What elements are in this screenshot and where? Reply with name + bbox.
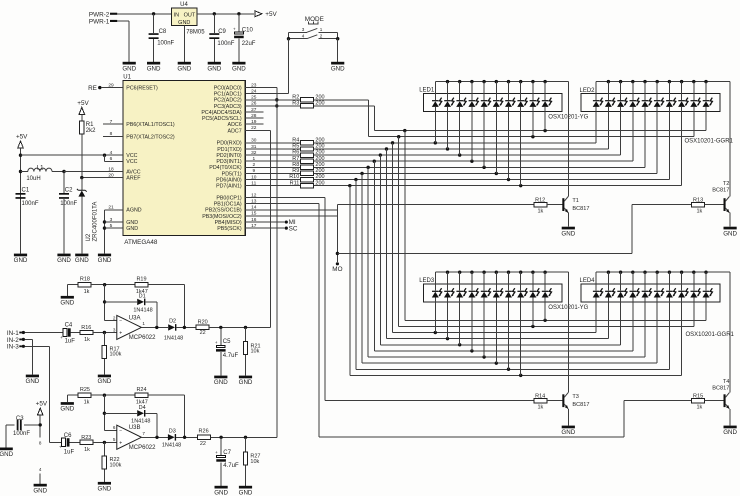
connector MO	[332, 262, 342, 273]
connector PWR-2	[89, 11, 117, 18]
svg-text:R9: R9	[292, 168, 299, 174]
resistor R21	[243, 327, 260, 375]
zener diode U2 ZRC400F01TA	[77, 178, 99, 254]
svg-text:R20: R20	[198, 319, 208, 325]
svg-text:10k: 10k	[251, 349, 260, 355]
svg-text:PB3(MOSI/OC2): PB3(MOSI/OC2)	[202, 214, 242, 220]
svg-text:BC817: BC817	[572, 206, 589, 212]
svg-text:1N4148: 1N4148	[133, 307, 152, 313]
wire AGND	[105, 210, 123, 254]
junction row9 bundle	[348, 184, 351, 187]
LED array LED2 box	[580, 88, 720, 111]
svg-text:PD7(AIN1): PD7(AIN1)	[216, 184, 242, 190]
svg-text:BC817: BC817	[712, 386, 729, 392]
switch MODE pole 2	[289, 34, 338, 39]
junction bottom row3 LED3 pin	[446, 337, 449, 340]
junction LED4 bus pin2	[607, 271, 610, 274]
wire row net R5	[314, 148, 609, 150]
svg-text:R18: R18	[80, 276, 90, 282]
svg-text:PB7(XTAL2/TOSC2): PB7(XTAL2/TOSC2)	[126, 134, 175, 140]
svg-text:100k: 100k	[110, 352, 122, 358]
LED D1-3 in LED1	[456, 82, 466, 155]
wire AREF	[82, 177, 123, 179]
wire U4 GND stem	[183, 26, 185, 62]
LED D1-6 in LED1	[493, 82, 503, 174]
svg-text:PD4(T0/XCK): PD4(T0/XCK)	[209, 165, 242, 171]
LED D3-3 in LED3	[456, 272, 466, 345]
svg-text:MO: MO	[332, 266, 342, 273]
svg-text:GND: GND	[239, 489, 253, 496]
wire U1 pin28 stub	[245, 117, 263, 119]
svg-text:D2: D2	[169, 318, 176, 324]
svg-text:GND: GND	[207, 65, 221, 72]
svg-text:GND: GND	[60, 300, 74, 307]
resistor R18	[67, 276, 135, 296]
svg-text:GND: GND	[60, 406, 74, 413]
junction C9 tap	[213, 12, 216, 15]
wire MO rail	[336, 205, 338, 263]
svg-text:PWR-2: PWR-2	[89, 11, 110, 18]
capacitor C3	[6, 416, 40, 448]
ground T1	[561, 227, 575, 238]
svg-text:T3: T3	[572, 394, 579, 400]
svg-text:22: 22	[200, 330, 206, 336]
junction PC0-R3row	[275, 104, 278, 107]
resistor R5	[245, 144, 324, 152]
svg-text:GND: GND	[14, 257, 28, 264]
LED D3-4 in LED3	[468, 272, 478, 351]
svg-text:22uF: 22uF	[242, 41, 256, 47]
wire PWR-1 down	[117, 21, 129, 62]
junction LED3 bus pin2	[446, 271, 449, 274]
svg-text:7: 7	[142, 431, 145, 436]
svg-text:BC817: BC817	[712, 188, 729, 194]
wire U4 OUT to +5V	[197, 13, 254, 15]
junction LED3 bus pin8	[519, 271, 522, 274]
svg-text:200: 200	[315, 94, 324, 100]
svg-text:R13: R13	[693, 197, 703, 203]
junction U3A out D1	[155, 326, 158, 329]
LED D2-1 in LED2	[593, 82, 603, 143]
junction row5 bundle	[373, 160, 376, 163]
svg-text:GND: GND	[561, 230, 575, 237]
LED D2-9 in LED2	[690, 82, 700, 137]
LED D2-5 in LED2	[642, 82, 652, 168]
wire bottom row net row8	[356, 368, 669, 370]
resistor R26	[197, 429, 276, 448]
wire MODE right rail	[337, 32, 339, 38]
connector MI	[285, 219, 296, 226]
junction LED4 bus pin6	[656, 271, 659, 274]
junction MO row	[336, 252, 339, 255]
transistor T3 BC817	[562, 393, 589, 426]
wire MODE to PC1	[245, 39, 288, 94]
svg-text:100nF: 100nF	[13, 431, 30, 437]
svg-text:2: 2	[113, 315, 116, 320]
ground R18	[60, 296, 74, 307]
resistor R3	[245, 101, 374, 109]
wire PC0 net	[245, 88, 277, 438]
junction R25 R24 node	[103, 394, 106, 397]
junction row1 LED1 pin	[531, 135, 534, 138]
junction row3 LED1 pin	[446, 147, 449, 150]
ground R17	[98, 375, 112, 386]
junction LED4 bus pin4	[631, 271, 634, 274]
wire RE to pin29	[101, 87, 123, 89]
svg-text:+: +	[119, 441, 122, 447]
junction LED2 bus pin5	[643, 80, 646, 83]
LED D4-1 in LED4	[593, 272, 603, 332]
wire bundle net row7 to bottom	[361, 173, 363, 363]
svg-text:GND: GND	[126, 220, 138, 226]
svg-text:LED3: LED3	[419, 278, 435, 284]
svg-text:R11: R11	[290, 180, 300, 186]
LED D2-2 in LED2	[605, 82, 615, 149]
svg-text:4: 4	[302, 34, 305, 39]
junction row4 bundle	[379, 153, 382, 156]
svg-text:IN-3: IN-3	[7, 344, 19, 351]
svg-text:2: 2	[320, 34, 323, 39]
svg-text:R5: R5	[292, 144, 299, 150]
svg-text:C9: C9	[218, 29, 226, 35]
junction bottom row1 LED3 pin	[531, 325, 534, 328]
LED D3-2 in LED3	[444, 272, 454, 338]
wire IN-1 to C4	[25, 332, 63, 334]
connector PWR-1	[89, 19, 117, 26]
ground R25	[60, 402, 74, 413]
junction C7 tap	[219, 436, 222, 439]
wire PB3 to MO rail	[245, 215, 337, 217]
ground R21	[239, 376, 253, 387]
LED D4-9 in LED4	[690, 272, 700, 326]
svg-text:ADC6: ADC6	[228, 122, 242, 128]
LED D4-4 in LED4	[629, 272, 639, 351]
resistor R20	[196, 319, 245, 336]
svg-text:2k2: 2k2	[86, 128, 96, 134]
wire row net R10	[314, 179, 670, 181]
junction LED1 bus pin5	[482, 80, 485, 83]
resistor R17	[102, 333, 121, 375]
svg-text:R7: R7	[292, 156, 299, 162]
power +5V output arrow	[255, 11, 277, 18]
ground C2	[57, 254, 71, 265]
junction LED4 bus pin3	[619, 271, 622, 274]
op-amp U3A MCP6022	[113, 315, 156, 341]
svg-text:5: 5	[113, 437, 116, 442]
svg-text:GND: GND	[33, 487, 47, 494]
junction row0 bundle	[403, 129, 406, 132]
svg-text:PC4(ADC4/SDA): PC4(ADC4/SDA)	[201, 110, 242, 116]
wire bottom row net row5	[374, 350, 633, 352]
svg-text:GND: GND	[0, 451, 14, 458]
ground R22	[98, 482, 112, 493]
wire bottom row net row2	[393, 332, 597, 334]
wire row net R2	[369, 136, 694, 138]
svg-text:22: 22	[200, 441, 206, 447]
junction row8 bundle	[354, 178, 357, 181]
svg-text:PD1(TXD): PD1(TXD)	[217, 147, 242, 153]
svg-text:GND: GND	[723, 429, 737, 436]
svg-text:PC2(ADC2): PC2(ADC2)	[214, 98, 242, 104]
power +5V rail arrow	[16, 133, 28, 148]
junction LED3 bus pin7	[507, 271, 510, 274]
junction LED4 bus pin8	[680, 271, 683, 274]
svg-text:4: 4	[39, 467, 42, 472]
diode D4 1N4148	[104, 405, 157, 438]
svg-text:1k: 1k	[84, 447, 90, 453]
svg-text:GND: GND	[239, 379, 253, 386]
svg-text:1: 1	[320, 27, 323, 32]
wire bundle net row0 to bottom	[404, 131, 406, 321]
svg-text:GND: GND	[214, 379, 228, 386]
resistor R24	[135, 387, 184, 437]
junction bottom row0 LED3 pin	[543, 319, 546, 322]
junction row2 LED1 pin	[434, 141, 437, 144]
wire LED4 common bus	[596, 272, 730, 392]
ground C7	[214, 486, 228, 497]
wire bottom row net row6	[368, 356, 645, 358]
svg-text:4.7uF: 4.7uF	[223, 353, 239, 359]
resistor R9	[245, 168, 324, 176]
junction R18 R19 node	[103, 283, 106, 286]
junction bottom row5 LED3 pin	[470, 349, 473, 352]
svg-text:8: 8	[39, 441, 42, 446]
junction VCC pin6 tap	[103, 154, 106, 157]
wire U3B inverting node down	[104, 395, 116, 430]
LED D1-5 in LED1	[481, 82, 491, 168]
svg-text:PD3(INT1): PD3(INT1)	[216, 159, 242, 165]
svg-text:R25: R25	[80, 387, 90, 393]
resistor R12	[534, 197, 562, 214]
wire U3A output	[141, 326, 168, 328]
wire bundle net row3 to bottom	[385, 149, 387, 339]
junction LED3 bus pin5	[482, 271, 485, 274]
svg-text:C1: C1	[22, 188, 30, 194]
wire +5V rail down	[20, 148, 22, 254]
junction U3B out D4	[155, 436, 158, 439]
label LED2 part OSX10201-GGR1	[685, 138, 734, 144]
svg-text:1N4148: 1N4148	[162, 442, 181, 448]
wire PB0 to T3 base	[245, 198, 533, 401]
junction LED2 bus pin3	[619, 80, 622, 83]
junction LED4 bus pin9	[692, 271, 695, 274]
svg-text:10uH: 10uH	[26, 176, 40, 182]
ground C10	[232, 62, 246, 73]
wire bundle net row1 to bottom	[398, 137, 400, 327]
svg-text:D3: D3	[169, 428, 176, 434]
wire inverting node down	[105, 285, 117, 321]
svg-text:D4: D4	[139, 405, 146, 411]
svg-text:1uF: 1uF	[65, 339, 76, 345]
svg-text:C6: C6	[64, 433, 72, 439]
junction LED3 bus pin6	[495, 271, 498, 274]
svg-text:R4: R4	[292, 137, 299, 143]
wire bottom row net row7	[362, 362, 657, 364]
junction MODE right	[336, 37, 339, 40]
svg-text:T1: T1	[572, 198, 579, 204]
svg-text:R3: R3	[292, 101, 299, 107]
svg-text:GND: GND	[122, 65, 136, 72]
wire LED2 common bus	[596, 82, 730, 197]
svg-text:+: +	[215, 450, 218, 455]
resistor R10	[245, 174, 324, 182]
svg-text:+5V: +5V	[77, 100, 89, 107]
power +5V opamp rail	[36, 401, 48, 416]
ground C5	[214, 376, 228, 387]
ground C9	[207, 62, 221, 73]
svg-text:R23: R23	[81, 435, 91, 441]
svg-text:GND: GND	[214, 489, 228, 496]
svg-text:GND: GND	[98, 486, 112, 493]
ground opamp pin4	[33, 484, 47, 495]
svg-text:AVCC: AVCC	[126, 169, 140, 175]
wire bundle net row2 to bottom	[392, 143, 394, 333]
junction row7 LED1 pin	[495, 172, 498, 175]
junction row8 LED1 pin	[507, 178, 510, 181]
wire GND pin3	[105, 221, 123, 223]
wire bottom row net row4	[380, 344, 620, 346]
capacitor C6	[59, 433, 80, 455]
junction VCC tap	[19, 154, 22, 157]
wire VCC to pin4	[21, 154, 123, 156]
junction LED2 bus pin9	[692, 80, 695, 83]
LED D1-8 in LED1	[517, 82, 527, 186]
svg-text:PB6(XTAL1/TOSC1): PB6(XTAL1/TOSC1)	[126, 122, 175, 128]
svg-text:1k: 1k	[84, 399, 90, 405]
resistor R25	[67, 387, 135, 406]
svg-text:GND: GND	[723, 230, 737, 237]
svg-text:R10: R10	[289, 174, 299, 180]
U1 right pin numbers	[251, 82, 257, 229]
svg-text:−: −	[119, 319, 122, 325]
junction LED4 bus pin10	[704, 271, 707, 274]
LED D2-10 in LED2	[703, 82, 713, 131]
wire U1 pin7 stub	[103, 123, 123, 125]
resistor R11	[245, 180, 324, 188]
junction C8 tap	[152, 12, 155, 15]
svg-text:GND: GND	[98, 378, 112, 385]
wire PB4 to MI	[245, 221, 284, 223]
svg-text:C4: C4	[65, 323, 73, 329]
junction R19 feedback	[183, 326, 186, 329]
junction GND pin5	[103, 226, 106, 229]
junction LED2 bus pin6	[656, 80, 659, 83]
junction LED1 bus pin9	[531, 80, 534, 83]
svg-text:200: 200	[315, 101, 324, 107]
wire bottom row net row1	[399, 325, 694, 327]
svg-text:T2: T2	[723, 181, 730, 187]
svg-text:PWR-1: PWR-1	[89, 19, 110, 26]
wire bundle net row8 to bottom	[355, 180, 357, 370]
junction LED2 bus pin10	[704, 80, 707, 83]
junction R23 R22 node	[103, 441, 106, 444]
svg-text:R26: R26	[199, 429, 209, 435]
power +5V R1 arrow	[77, 100, 89, 115]
junction bottom row8 LED3 pin	[507, 368, 510, 371]
LED D1-7 in LED1	[505, 82, 515, 180]
junction row9 LED1 pin	[519, 184, 522, 187]
junction AREF node	[80, 176, 83, 179]
LED array LED1 box	[419, 88, 562, 112]
svg-text:GND: GND	[75, 257, 89, 264]
junction LED4 bus pin7	[668, 271, 671, 274]
ground AGND	[98, 254, 112, 265]
svg-text:100nF: 100nF	[22, 201, 39, 207]
wire bundle net row5 to bottom	[373, 161, 375, 351]
svg-text:MCP6022: MCP6022	[129, 335, 156, 341]
resistor R23	[80, 435, 117, 453]
svg-text:BC817: BC817	[572, 402, 589, 408]
svg-text:1uF: 1uF	[64, 449, 75, 455]
svg-text:U1: U1	[123, 74, 131, 80]
junction LED2 bus pin2	[607, 80, 610, 83]
junction bottom row6 LED3 pin	[482, 355, 485, 358]
LED D1-1 in LED1	[432, 82, 442, 143]
wire GND pin5	[105, 227, 123, 229]
svg-text:PB4(MISO): PB4(MISO)	[215, 220, 242, 226]
svg-text:+: +	[215, 340, 218, 345]
svg-text:RE: RE	[88, 85, 97, 92]
wire LED3 common bus	[435, 272, 568, 392]
wire AVCC	[64, 171, 123, 173]
wire R2 jog	[368, 100, 370, 137]
svg-text:GND: GND	[26, 378, 40, 385]
svg-text:R15: R15	[693, 393, 703, 399]
svg-text:1N4148: 1N4148	[131, 419, 150, 425]
svg-text:C8: C8	[159, 29, 167, 35]
ground MODE	[331, 62, 345, 73]
U1 left pin numbers	[108, 82, 114, 229]
switch MODE pole 1	[289, 27, 338, 32]
svg-text:T4: T4	[723, 379, 730, 385]
junction bottom row9 LED3 pin	[519, 374, 522, 377]
resistor R7	[245, 156, 324, 164]
wire U3B output	[141, 436, 168, 438]
capacitor C7	[215, 437, 239, 486]
label LED1 part OSX10201-YG	[548, 114, 588, 120]
junction LED1 bus pin10	[543, 80, 546, 83]
junction LED1 bus pin4	[470, 80, 473, 83]
svg-text:C10: C10	[242, 28, 254, 34]
svg-text:R14: R14	[535, 393, 545, 399]
wire PWR-2 to U4 IN	[117, 13, 172, 15]
resistor R13	[692, 197, 724, 214]
svg-text:PC1(ADC1): PC1(ADC1)	[214, 92, 242, 98]
diode D2 1N4148	[164, 318, 196, 341]
resistor R4	[245, 137, 324, 145]
LED D4-3 in LED4	[617, 272, 627, 345]
svg-text:U3A: U3A	[129, 315, 141, 321]
capacitor C5	[215, 327, 239, 375]
svg-text:GND: GND	[98, 257, 112, 264]
svg-text:PC0(ADC0): PC0(ADC0)	[214, 86, 242, 92]
switch MODE label	[305, 16, 324, 24]
junction row3 bundle	[385, 147, 388, 150]
ground T3	[561, 426, 575, 437]
LED D3-7 in LED3	[505, 272, 515, 369]
junction row5 LED1 pin	[470, 160, 473, 163]
svg-text:R6: R6	[292, 150, 299, 156]
svg-text:6: 6	[113, 425, 116, 430]
svg-text:+: +	[119, 331, 122, 337]
voltage regulator U4 78M05	[172, 2, 206, 35]
svg-text:U4: U4	[180, 2, 188, 8]
svg-text:4.7uF: 4.7uF	[223, 463, 239, 469]
svg-text:R2: R2	[292, 94, 299, 100]
junction LED2 bus pin7	[668, 80, 671, 83]
svg-text:R16: R16	[81, 325, 91, 331]
capacitor C2	[59, 172, 78, 254]
